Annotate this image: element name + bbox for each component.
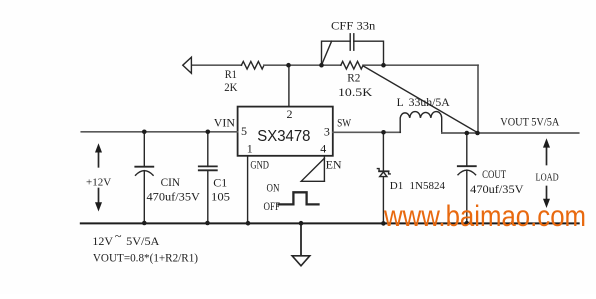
svg-text:R1: R1 <box>225 67 237 81</box>
svg-text:SW: SW <box>337 116 352 130</box>
svg-text:5V/5A: 5V/5A <box>126 234 160 248</box>
svg-text:VOUT 5V/5A: VOUT 5V/5A <box>500 114 559 128</box>
svg-text:VIN: VIN <box>214 116 236 130</box>
svg-text:www.baimao.com: www.baimao.com <box>383 200 586 233</box>
svg-text:470uf/35V: 470uf/35V <box>470 182 524 196</box>
svg-text:VOUT=0.8*(1+R2/R1): VOUT=0.8*(1+R2/R1) <box>93 251 198 265</box>
svg-text:10.5K: 10.5K <box>338 85 373 99</box>
svg-text:2: 2 <box>287 107 293 121</box>
svg-text:470uf/35V: 470uf/35V <box>147 190 201 204</box>
svg-text:EN: EN <box>326 157 342 171</box>
svg-text:2K: 2K <box>224 80 237 94</box>
svg-text:CFF 33n: CFF 33n <box>331 19 375 33</box>
svg-text:D1: D1 <box>390 180 403 192</box>
svg-text:4: 4 <box>320 141 326 155</box>
svg-text:L: L <box>397 97 404 109</box>
svg-text:105: 105 <box>211 190 230 204</box>
svg-text:1: 1 <box>247 141 253 155</box>
svg-text:COUT: COUT <box>482 167 506 181</box>
svg-text:CIN: CIN <box>161 175 181 189</box>
svg-text:3: 3 <box>324 125 330 139</box>
svg-text:33uh/5A: 33uh/5A <box>409 97 451 109</box>
svg-text:LOAD: LOAD <box>536 172 559 184</box>
svg-text:ON: ON <box>267 180 280 194</box>
svg-text:12V: 12V <box>92 234 113 248</box>
svg-text:5: 5 <box>241 124 247 138</box>
svg-text:~: ~ <box>115 229 122 243</box>
svg-text:+12V: +12V <box>86 176 111 188</box>
svg-text:GND: GND <box>250 157 269 171</box>
svg-text:1N5824: 1N5824 <box>410 180 446 192</box>
svg-text:C1: C1 <box>213 175 227 189</box>
svg-text:OFF: OFF <box>264 199 281 213</box>
svg-text:R2: R2 <box>347 71 360 85</box>
svg-text:SX3478: SX3478 <box>257 128 310 145</box>
